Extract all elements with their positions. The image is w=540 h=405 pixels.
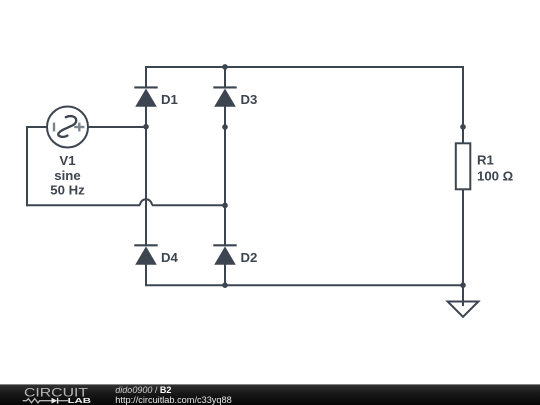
svg-text:50 Hz: 50 Hz (50, 183, 85, 198)
resistor R1 (box) (456, 143, 471, 189)
wire: top rail down to D3 cathode (224, 66, 226, 88)
label D1 (161, 92, 178, 107)
wire: ground stub (462, 285, 464, 306)
junction node: top rail at D3 (222, 64, 228, 70)
label V1 type: sine (54, 168, 80, 183)
svg-text:D1: D1 (161, 92, 178, 107)
wire: D4 anode down to bottom rail (145, 265, 147, 287)
footer text: circuit URL (115, 395, 231, 405)
diode D3 (213, 87, 236, 106)
footer text: author and circuit name (115, 385, 171, 395)
svg-text:D2: D2 (241, 250, 258, 265)
wire: bottom horizontal of V1 return loop (left of hop) (27, 204, 140, 206)
wire: R1 bottom down to bottom rail (462, 189, 464, 285)
CircuitLab logo: resistor zigzag and diode waveform (23, 398, 68, 404)
voltage source V1 (47, 107, 88, 148)
label R1 (477, 152, 494, 167)
wire: D2 anode down to bottom rail (224, 265, 226, 287)
junction node: wire joint on R1 top wire (460, 124, 466, 130)
wire hop: crossover arc over D1-D4 wire (140, 199, 152, 205)
label R1 value: 100 Ohm (477, 168, 514, 183)
svg-text:D4: D4 (161, 250, 179, 265)
label V1 frequency: 50 Hz (50, 183, 85, 198)
svg-text:R1: R1 (477, 152, 494, 167)
label D4 (161, 250, 179, 265)
wire: left vertical segment of V1 return loop (26, 126, 28, 206)
wire: V1 return loop to D3/D2 midpoint node (152, 204, 225, 206)
svg-text:http://circuitlab.com/c33yq88: http://circuitlab.com/c33yq88 (115, 395, 231, 405)
junction node: bottom rail at D2 (222, 282, 228, 288)
wire: R1 column top (top rail down to R1) (462, 66, 464, 148)
ground symbol (448, 302, 479, 317)
diode D4 (134, 245, 157, 264)
svg-text:LAB: LAB (68, 396, 91, 405)
svg-text:D3: D3 (241, 92, 258, 107)
wire: top rail (D1/D3 cathodes to R1 top) (145, 66, 464, 68)
wire: V1 left terminal going left (27, 126, 47, 128)
wire: top rail corner down to D1 cathode (145, 66, 147, 88)
CircuitLab logo: CIRCUIT wordmark (24, 386, 89, 400)
diode D2 (213, 245, 236, 264)
wire: V1 right terminal to D1/D4 midpoint node (88, 126, 146, 128)
footer bar (0, 384, 540, 405)
junction node: V1+ at D1/D4 wire (143, 124, 149, 130)
label D2 (241, 250, 258, 265)
junction node: bottom rail at ground (460, 282, 466, 288)
junction node: wire joint on D3/D2 wire (222, 124, 228, 130)
svg-text:100 Ω: 100 Ω (477, 168, 514, 183)
diode D1 (134, 87, 157, 106)
svg-text:sine: sine (54, 168, 80, 183)
label V1 name (59, 153, 75, 168)
wire: bottom rail (D4/D2 anodes to ground) (146, 284, 463, 286)
wire: D3 anode down to D2 cathode (224, 107, 226, 246)
svg-text:dido0900 / B2: dido0900 / B2 (115, 385, 171, 395)
junction node: V1- return at D3/D2 wire (222, 203, 228, 209)
CircuitLab logo: LAB wordmark (68, 396, 91, 405)
svg-text:V1: V1 (59, 153, 75, 168)
wire: D1 anode down through node to D4 cathode (145, 107, 147, 246)
label D3 (241, 92, 258, 107)
